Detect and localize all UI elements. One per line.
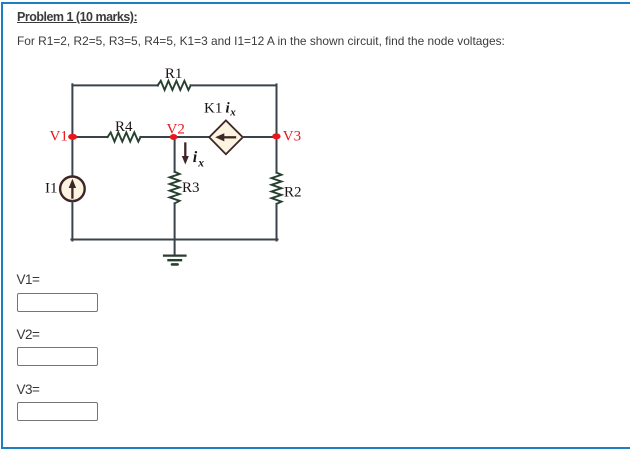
resistor R4: [108, 132, 141, 141]
resistor R1: [158, 81, 191, 90]
answer label V1=: [17, 272, 40, 287]
wire bottom rail: [71, 239, 277, 241]
wire mid rail V1 to R4: [72, 136, 107, 138]
svg-text:i: i: [193, 149, 198, 166]
svg-text:V1: V1: [50, 128, 68, 144]
svg-text:R1: R1: [165, 66, 183, 82]
wire left rail upper: [71, 84, 73, 176]
node V3: [272, 133, 280, 139]
svg-text:V2: V2: [167, 122, 185, 138]
label I1: [45, 181, 58, 197]
answer label V3=: [17, 382, 40, 397]
wire right rail upper: [276, 84, 278, 172]
svg-text:I1: I1: [45, 181, 58, 197]
node V1: [68, 134, 77, 140]
ground: [164, 240, 186, 265]
label K1 ix: [204, 100, 236, 118]
svg-text:R2: R2: [284, 185, 302, 201]
label R4: [115, 119, 133, 135]
wire V2 branch lower: [174, 203, 176, 239]
label R3: [182, 180, 200, 196]
wire mid rail R4 to dependent source: [140, 136, 209, 138]
current arrow ix annotation: [182, 144, 189, 165]
svg-text:R3: R3: [182, 180, 200, 196]
resistor R3: [170, 172, 180, 204]
label R1: [165, 66, 183, 82]
svg-text:x: x: [229, 107, 236, 119]
svg-text:R4: R4: [115, 119, 133, 135]
wire top-right segment: [191, 84, 277, 86]
answer box V3: [17, 402, 98, 421]
svg-text:V3: V3: [283, 129, 301, 145]
label R2: [284, 185, 302, 201]
node V2: [170, 134, 178, 140]
answer label V2=: [17, 327, 40, 342]
wire V2 branch upper: [174, 137, 176, 172]
label V3: [283, 129, 301, 145]
dependent current source K1ix (diamond): [209, 120, 243, 154]
wire right rail lower: [276, 204, 278, 241]
label V1: [50, 128, 68, 144]
answer box V1: [17, 293, 98, 312]
svg-text:K1: K1: [204, 100, 222, 116]
label ix: [193, 149, 205, 169]
wire top-left segment: [72, 84, 158, 86]
current source I1: [60, 177, 85, 202]
wire mid rail dependent source to V3: [243, 136, 277, 138]
answer box V2: [17, 347, 98, 366]
wire left rail lower: [71, 202, 73, 241]
label V2: [167, 122, 185, 138]
resistor R2: [272, 173, 282, 204]
svg-text:x: x: [197, 157, 204, 169]
